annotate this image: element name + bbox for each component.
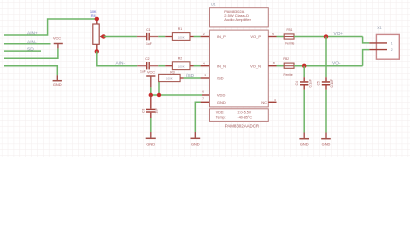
svg-text:U1: U1 xyxy=(211,2,216,6)
supply symbol VCC (left) xyxy=(53,37,63,49)
op-amp U1 PAM8302A title box xyxy=(210,8,269,27)
capacitor C1 xyxy=(137,33,158,40)
wire VO- junction down to C4 xyxy=(303,66,305,77)
svg-text:IN_P: IN_P xyxy=(217,34,226,39)
pin 7 stub GND xyxy=(201,101,210,103)
svg-text:R1: R1 xyxy=(178,27,182,31)
pin 2 stub IN_P xyxy=(201,36,210,38)
wire C3 to ground xyxy=(150,118,152,132)
capacitor C3 xyxy=(146,95,156,118)
node: junction VCC/C3 xyxy=(149,93,153,97)
potentiometer R4 xyxy=(93,19,104,51)
svg-text:VCC: VCC xyxy=(53,37,61,41)
svg-text:NC: NC xyxy=(261,100,267,105)
ground symbol (IC GND) xyxy=(191,132,201,146)
svg-text:C5: C5 xyxy=(317,81,321,85)
wire C1 to R1 xyxy=(158,36,165,38)
wire C4 to ground xyxy=(303,90,305,133)
svg-text:VO+: VO+ xyxy=(334,31,344,37)
wire pot bottom to C2 (net AIN-) xyxy=(97,51,138,65)
svg-text:1uF: 1uF xyxy=(155,108,159,114)
connector X1 xyxy=(376,34,399,59)
wire VDD rail to pin 6 xyxy=(151,94,202,96)
wire VCC symbol to junction xyxy=(150,87,152,95)
op-amp U1 parameter box xyxy=(210,109,269,122)
node: junction VO- xyxy=(302,64,306,68)
svg-text:Ferrite: Ferrite xyxy=(284,73,293,77)
wire VO_N to FB2 xyxy=(277,65,285,67)
svg-text:VO_N: VO_N xyxy=(250,63,261,68)
wire VO_P to FB1 xyxy=(277,36,285,38)
resistor R1 xyxy=(165,33,193,41)
node: junction at pot top xyxy=(95,17,99,21)
svg-text:100K: 100K xyxy=(178,65,185,69)
wire R1 to IN_P pin xyxy=(194,36,201,38)
svg-text:VO_P: VO_P xyxy=(250,34,261,39)
capacitor C4 xyxy=(300,77,308,90)
svg-text:C2: C2 xyxy=(145,57,149,61)
svg-text:VDD:: VDD: xyxy=(216,111,225,115)
svg-text:1uF: 1uF xyxy=(140,70,146,74)
capacitor C5 xyxy=(322,77,330,90)
svg-text:C4: C4 xyxy=(295,81,299,85)
svg-text:C3: C3 xyxy=(141,109,145,113)
wire GND net from header xyxy=(4,66,57,75)
pin stub X1-1 xyxy=(369,42,387,44)
pin 6 stub VDD xyxy=(202,94,210,96)
ferrite bead FB1 xyxy=(284,34,294,39)
ground symbol (C5) xyxy=(321,133,331,147)
ground symbol (C4) xyxy=(299,133,309,147)
svg-text:100K: 100K xyxy=(178,35,185,39)
wire FB2 to VO- junction xyxy=(294,65,363,67)
ground symbol (left header) xyxy=(53,75,62,87)
svg-text:FB2: FB2 xyxy=(283,57,289,61)
supply symbol VCC (mid) xyxy=(146,71,155,88)
svg-text:VCC: VCC xyxy=(147,71,155,75)
svg-text:R2: R2 xyxy=(178,56,182,60)
node: junction at pot bottom xyxy=(95,49,99,53)
svg-text:R4: R4 xyxy=(91,14,96,18)
wire C5 to ground xyxy=(325,90,327,133)
wire VO+ to X1 pin 1 xyxy=(363,37,370,43)
wire C2 to R2 xyxy=(158,65,165,67)
wire FB1 to VO+ junction xyxy=(294,36,363,38)
svg-text:GND: GND xyxy=(217,100,226,105)
svg-text:VO-: VO- xyxy=(332,60,341,66)
svg-text:Audio Amplifier: Audio Amplifier xyxy=(224,17,251,22)
wire AIN- stub from header xyxy=(4,43,51,45)
svg-text:/SD: /SD xyxy=(217,76,224,81)
svg-text:1uF: 1uF xyxy=(146,42,152,46)
svg-text:1: 1 xyxy=(391,41,393,45)
svg-text:Ferrite: Ferrite xyxy=(285,42,294,46)
wire SD stub from header xyxy=(4,50,41,52)
svg-text:GND: GND xyxy=(146,141,155,146)
pin 4 stub IN_N xyxy=(201,65,210,67)
svg-text:/SD: /SD xyxy=(186,73,195,79)
svg-text:IN_N: IN_N xyxy=(217,63,226,68)
wire wiper to C1 xyxy=(104,36,137,38)
capacitor C2 xyxy=(137,62,158,69)
wire AIN+ stub from header xyxy=(4,19,97,35)
wire R3 left lead down to VDD rail xyxy=(158,82,160,95)
svg-text:GND: GND xyxy=(191,141,200,146)
svg-text:C1: C1 xyxy=(146,28,150,32)
svg-text:GND: GND xyxy=(53,82,62,87)
svg-text:AIN-: AIN- xyxy=(116,60,126,66)
svg-text:PAM8302AADCR: PAM8302AADCR xyxy=(225,124,259,129)
node: junction at pot wiper xyxy=(101,34,105,38)
wire GND pin to ground xyxy=(195,102,200,132)
pin 1 stub /SD xyxy=(201,77,210,79)
svg-text:AIN-: AIN- xyxy=(27,39,37,45)
ground symbol (C3) xyxy=(146,132,156,146)
svg-text:2.0-5.5V: 2.0-5.5V xyxy=(238,111,252,115)
svg-text:VDD: VDD xyxy=(217,93,226,98)
node: junction R3/VDD rail xyxy=(157,93,161,97)
resistor R2 xyxy=(165,62,193,70)
resistor R3 xyxy=(159,74,184,81)
svg-text:0.1uF: 0.1uF xyxy=(308,79,312,87)
node: junction VO+ xyxy=(324,34,328,38)
svg-text:GND: GND xyxy=(322,142,331,147)
svg-text:FB1: FB1 xyxy=(287,28,293,32)
svg-text:2: 2 xyxy=(391,48,393,52)
ferrite bead FB2 xyxy=(284,63,294,68)
pin 5 stub VO_P xyxy=(268,36,276,38)
pin stub X1-2 xyxy=(369,49,387,51)
svg-text:GND: GND xyxy=(300,142,309,147)
pin 3 stub NC xyxy=(268,101,276,103)
svg-text:100K: 100K xyxy=(166,77,173,81)
wire VO+ junction down to C5 xyxy=(325,37,327,78)
svg-text:Temp:: Temp: xyxy=(216,115,226,119)
svg-text:SD: SD xyxy=(27,47,34,53)
svg-text:-40-85°C: -40-85°C xyxy=(238,115,253,119)
svg-text:R3: R3 xyxy=(170,70,174,74)
pin 8 stub VO_N xyxy=(268,65,276,67)
wire VO- to X1 pin 2 xyxy=(363,50,370,66)
svg-text:AIN+: AIN+ xyxy=(27,31,38,37)
op-amp U1 main body xyxy=(210,30,269,107)
svg-text:X1: X1 xyxy=(377,26,381,30)
wire VCC net from header xyxy=(4,48,58,58)
svg-text:0.1uF: 0.1uF xyxy=(330,79,334,87)
wire R3 to /SD pin xyxy=(184,77,201,79)
wire R2 to IN_N pin xyxy=(194,65,201,67)
